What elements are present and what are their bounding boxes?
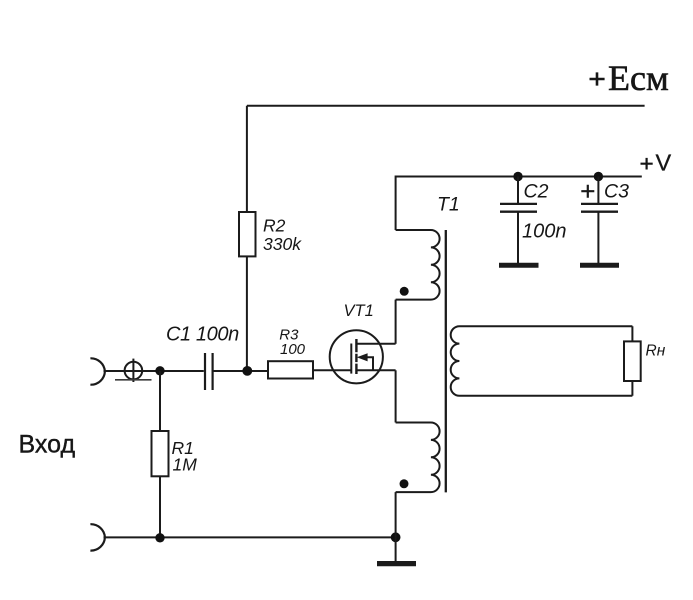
junction node A (input/R1) — [155, 366, 164, 375]
transformer core — [445, 230, 447, 492]
wire R2 top lead — [246, 106, 248, 212]
coax jack symbol (circle with cross and shield line) — [115, 359, 152, 382]
resistor R3 — [268, 361, 313, 378]
wire R1 top lead — [159, 371, 161, 431]
svg-text:330k: 330k — [263, 234, 302, 254]
junction node D (R1/return) — [155, 533, 164, 542]
svg-text:C1 100n: C1 100n — [166, 323, 239, 345]
svg-text:Вход: Вход — [19, 430, 76, 458]
label C3 — [604, 181, 629, 203]
resistor R1 — [152, 431, 169, 476]
phase dot top winding — [400, 287, 409, 296]
label Вход (input) — [19, 430, 76, 458]
label T1 — [437, 194, 460, 216]
capacitor C2 — [499, 177, 539, 266]
label Rн — [646, 342, 666, 359]
wire bottom return — [104, 536, 396, 538]
svg-text:T1: T1 — [437, 194, 460, 216]
svg-text:V: V — [656, 150, 672, 176]
svg-text:VT1: VT1 — [344, 302, 374, 320]
junction node C3 on +V rail — [594, 172, 603, 181]
label net +Есм — [590, 58, 669, 98]
wire drain to transformer — [395, 300, 397, 344]
junction node B (R2/C1/R3) — [242, 366, 252, 376]
svg-text:Rн: Rн — [646, 342, 666, 359]
capacitor C1 — [205, 353, 213, 390]
wire +V rail — [396, 177, 642, 231]
wire Есм supply rail — [247, 105, 645, 107]
input connector XS bottom — [90, 524, 105, 550]
junction node C2 on +V rail — [513, 172, 522, 181]
wire R3 to gate — [313, 369, 351, 371]
svg-text:100: 100 — [280, 341, 306, 358]
wire winding bottom to ground node — [395, 492, 397, 537]
resistor R2 — [239, 212, 256, 256]
label C2 — [524, 181, 549, 203]
svg-text:1M: 1M — [173, 455, 198, 475]
svg-text:C3: C3 — [604, 181, 629, 203]
wire secondary right to Rн — [631, 326, 633, 396]
value label 100n (C2) — [522, 220, 567, 242]
value label R1 1M — [172, 438, 198, 475]
svg-text:Есм: Есм — [608, 58, 669, 98]
value label R3 100 — [279, 327, 305, 358]
wire ground lead — [395, 537, 397, 561]
wire source to transformer — [395, 370, 397, 422]
svg-text:R2: R2 — [263, 215, 286, 235]
transformer secondary winding — [451, 326, 633, 396]
label net +V — [641, 150, 672, 176]
wire R1 bottom lead — [159, 476, 161, 538]
input connector XS top — [90, 358, 105, 384]
phase dot bottom winding — [400, 479, 409, 488]
wire C1 to R3 — [214, 370, 269, 372]
transformer T1 primary bottom winding — [396, 423, 440, 493]
resistor Rн (load) — [624, 341, 641, 381]
polarity plus of C3 — [581, 185, 594, 198]
value label R2 330k — [263, 215, 302, 254]
transformer T1 primary top winding — [396, 230, 440, 300]
label VT1 — [344, 302, 374, 320]
ground — [377, 561, 416, 566]
value label C1 100n — [166, 323, 239, 345]
capacitor C3 (polarized) — [580, 177, 619, 266]
junction node E (return/ground) — [391, 532, 401, 542]
wire input to C1 — [104, 370, 204, 372]
svg-text:C2: C2 — [524, 181, 549, 203]
wire R2 bottom lead to node B — [246, 256, 248, 371]
svg-text:100n: 100n — [522, 220, 567, 242]
transistor VT1 (MOSFET) — [330, 330, 396, 383]
